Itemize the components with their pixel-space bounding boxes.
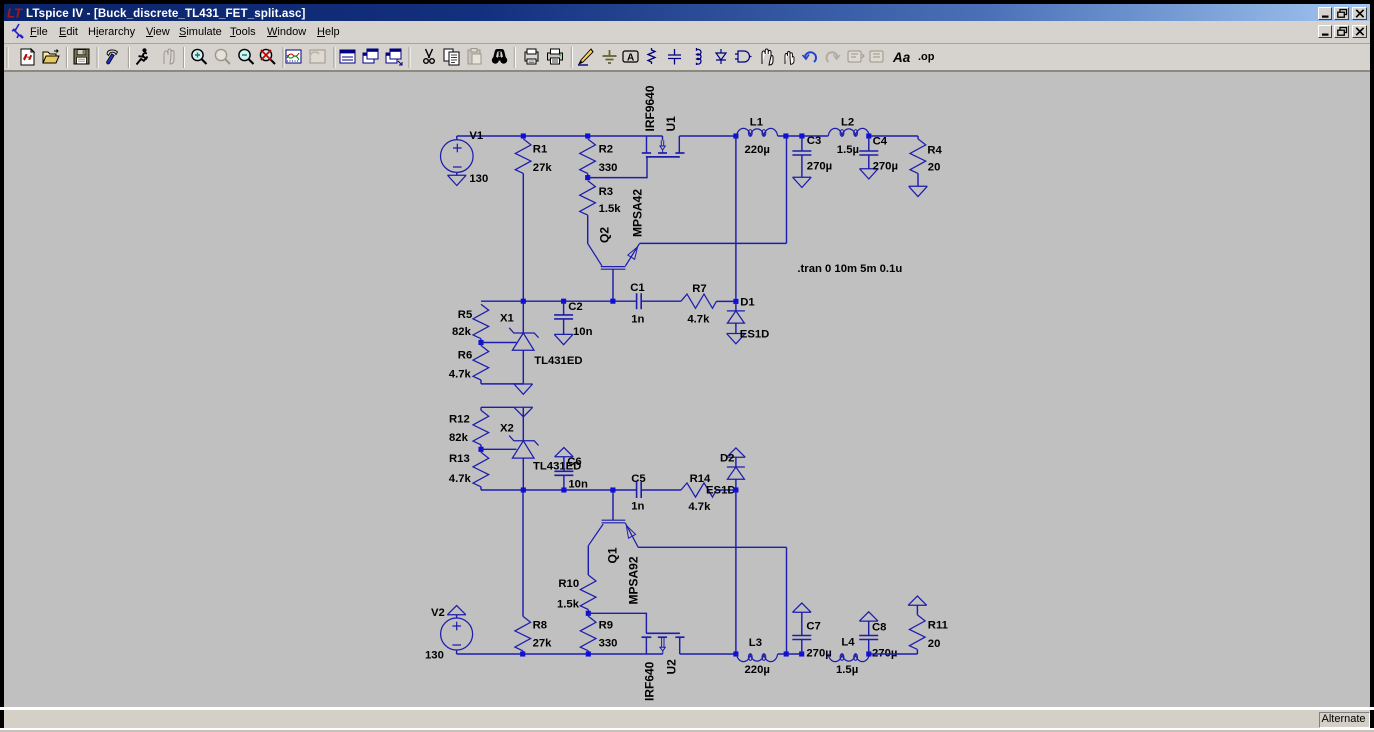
junction mid rail at Q2 base	[610, 299, 615, 304]
junction R12/R13/X2 ref	[478, 447, 483, 452]
wire to X2 ref	[481, 448, 517, 450]
wire mid rail left	[481, 300, 637, 302]
svg-text:L4: L4	[841, 636, 855, 648]
svg-text:27k: 27k	[533, 638, 553, 650]
wire bottom rail right	[680, 653, 736, 655]
svg-text:C4: C4	[873, 135, 888, 147]
capacitor C3	[801, 136, 803, 151]
capacitor C7	[801, 612, 803, 635]
U1 body bar	[658, 152, 667, 154]
svg-text:C8: C8	[872, 621, 886, 633]
npn transistor Q2	[601, 266, 626, 268]
svg-text:20: 20	[928, 162, 941, 174]
svg-text:4.7k: 4.7k	[688, 501, 711, 513]
svg-text:1.5µ: 1.5µ	[837, 144, 859, 156]
wire C8 to R11	[869, 653, 918, 655]
svg-text:TL431ED: TL431ED	[534, 355, 582, 367]
status bar	[0, 707, 1374, 710]
shunt regulator X2 TL431ED	[522, 407, 524, 441]
junction top rail at Q2 emitter branch	[783, 133, 788, 138]
wire L2 to R4 segment	[867, 135, 918, 137]
title bar	[4, 4, 1370, 21]
shunt regulator X1 TL431ED	[522, 301, 524, 333]
svg-text:V1: V1	[469, 130, 483, 142]
svg-text:Q2: Q2	[598, 227, 612, 243]
resistor R1	[515, 139, 531, 174]
wire C1 to R7	[641, 300, 681, 302]
svg-text:130: 130	[425, 650, 444, 662]
svg-text:V2: V2	[431, 607, 445, 619]
wire Q1 collector to R10	[587, 546, 589, 575]
svg-text:R3: R3	[599, 186, 613, 198]
resistor R3	[580, 181, 596, 216]
wire Q1 emitter to bottom switch node	[638, 546, 786, 548]
wire R14 to D2 node	[717, 489, 736, 491]
ground under V1	[448, 174, 467, 176]
junction gate node	[585, 175, 590, 180]
svg-text:82k: 82k	[452, 326, 472, 338]
svg-text:1.5k: 1.5k	[599, 203, 622, 215]
svg-text:IRF9640: IRF9640	[643, 85, 657, 131]
pnp transistor Q1	[602, 519, 626, 521]
svg-text:X1: X1	[500, 313, 514, 325]
svg-text:L2: L2	[841, 116, 854, 128]
junction bottom rail at C7	[799, 651, 804, 656]
voltage source V1	[456, 136, 458, 140]
svg-text:R9: R9	[599, 620, 613, 632]
U2 source stub	[645, 637, 647, 654]
svg-text:C6: C6	[567, 456, 581, 468]
wire top rail left (V1 to U1 source)	[457, 135, 663, 137]
junction D1 node	[733, 299, 738, 304]
inductor L4	[828, 654, 869, 662]
svg-text:R4: R4	[927, 144, 942, 156]
resistor R8	[515, 616, 531, 651]
wire to X1 ref	[481, 342, 517, 344]
power flag above C8	[859, 620, 878, 622]
svg-text:R2: R2	[599, 144, 613, 156]
junction R10/R9/U2 gate	[586, 611, 591, 616]
junction bottom rail at C8	[866, 651, 871, 656]
junction bottom mid rail at X2	[521, 487, 526, 492]
wire L1 to L2 segment	[778, 135, 829, 137]
ground under R4	[909, 185, 928, 187]
svg-text:C1: C1	[630, 282, 644, 294]
U1 body stub with arrow	[662, 136, 664, 140]
svg-text:10n: 10n	[573, 326, 593, 338]
svg-text:MPSA92: MPSA92	[627, 556, 641, 604]
capacitor C4	[868, 136, 870, 151]
menu bar	[4, 21, 1370, 44]
resistor R11	[916, 605, 918, 615]
svg-text:10n: 10n	[568, 479, 588, 491]
resistor R12	[480, 407, 482, 410]
toolbar	[4, 44, 1370, 70]
svg-text:R6: R6	[458, 349, 472, 361]
U1 drain stub	[678, 136, 680, 153]
junction top rail at C4	[866, 133, 871, 138]
power flag above V2	[447, 614, 466, 616]
capacitor C8	[868, 621, 870, 635]
resistor R14	[681, 483, 717, 497]
diode D1	[735, 301, 737, 311]
wire R1 bottom to mid rail	[522, 173, 524, 301]
U1 drain bar	[675, 152, 684, 154]
svg-text:220µ: 220µ	[745, 144, 770, 156]
junction R5/R6/X1 ref	[478, 340, 483, 345]
ground under X1	[514, 383, 533, 385]
junction bottom mid rail at C6	[561, 487, 566, 492]
wire R6 bottom to X1 anode	[481, 383, 523, 385]
ground symbol at R12 top	[514, 406, 533, 408]
wire Q2 emitter branch vertical	[786, 136, 788, 243]
power flag above D2	[727, 456, 746, 458]
svg-text:R12: R12	[449, 413, 470, 425]
wire bottom mid rail	[481, 489, 637, 491]
svg-text:270µ: 270µ	[873, 160, 898, 172]
svg-text:.tran 0 10m 5m 0.1u: .tran 0 10m 5m 0.1u	[797, 263, 902, 275]
U2 body bar	[658, 636, 667, 638]
wire top rail right (U1 drain to L1)	[679, 135, 736, 137]
wire C5 to R14	[641, 489, 681, 491]
svg-text:27k: 27k	[533, 162, 553, 174]
ground under C3	[793, 176, 812, 178]
svg-text:ES1D: ES1D	[706, 484, 736, 496]
resistor R10	[580, 575, 596, 610]
svg-text:330: 330	[599, 162, 618, 174]
resistor R13	[480, 449, 482, 452]
wire U2 gate feed	[588, 613, 646, 633]
svg-text:R10: R10	[558, 578, 579, 590]
U1 channel bar	[646, 156, 680, 158]
svg-text:270µ: 270µ	[806, 648, 831, 660]
capacitor C6	[563, 457, 565, 472]
svg-text:C2: C2	[568, 301, 582, 313]
U2 body stub with arrow	[661, 637, 663, 647]
inductor L2	[828, 128, 869, 136]
resistor R2	[580, 139, 596, 174]
junction top rail at L1 left / D1 branch	[733, 133, 738, 138]
junction bottom rail at L3 right	[784, 651, 789, 656]
wire L3 to C7	[778, 653, 802, 655]
LTspice app icon	[6, 5, 24, 20]
svg-text:C5: C5	[631, 473, 645, 485]
resistor R4	[917, 136, 919, 139]
capacitor C2	[563, 301, 565, 315]
ground under C4	[860, 168, 879, 170]
svg-text:82k: 82k	[449, 432, 469, 444]
svg-text:R13: R13	[449, 453, 470, 465]
svg-text:4.7k: 4.7k	[449, 473, 472, 485]
wire D2 branch vertical to bottom rail	[735, 490, 737, 654]
svg-text:IRF640: IRF640	[643, 661, 657, 701]
junction top rail at R2	[585, 133, 590, 138]
svg-text:R1: R1	[533, 144, 547, 156]
wire gate node to U1 gate	[588, 157, 647, 178]
junction D2 node	[733, 487, 738, 492]
svg-text:ES1D: ES1D	[740, 329, 770, 341]
wire R7 to D1 node	[717, 300, 736, 302]
svg-text:1n: 1n	[631, 314, 644, 326]
junction bottom mid rail at Q1 base	[610, 487, 615, 492]
resistor R6	[480, 343, 482, 346]
svg-text:C7: C7	[806, 621, 820, 633]
junction bottom rail at R8	[520, 651, 525, 656]
p-mosfet U1 source stub	[646, 136, 648, 153]
svg-text:4.7k: 4.7k	[687, 314, 710, 326]
power flag above R12 (inverted ground)	[481, 406, 514, 408]
wire D1 branch vertical	[735, 136, 737, 301]
power flag above C7	[793, 611, 812, 613]
junction mid rail at X1/R1	[521, 299, 526, 304]
svg-text:330: 330	[599, 638, 618, 650]
wire bottom rail left	[457, 653, 663, 655]
junction mid rail at C2	[561, 299, 566, 304]
svg-text:1n: 1n	[631, 500, 644, 512]
svg-text:L3: L3	[749, 637, 762, 649]
svg-text:MPSA42: MPSA42	[631, 189, 645, 237]
svg-text:D1: D1	[740, 296, 754, 308]
svg-text:R5: R5	[458, 309, 472, 321]
svg-text:R14: R14	[690, 473, 711, 485]
svg-text:270µ: 270µ	[807, 160, 832, 172]
resistor R9	[587, 613, 589, 616]
wire R3 bottom to Q2 collector	[587, 215, 589, 243]
wire R8 top to X2 node	[522, 490, 524, 616]
svg-text:R7: R7	[692, 283, 706, 295]
capacitor C1	[636, 293, 638, 309]
ground under C2	[554, 333, 573, 335]
svg-text:X2: X2	[500, 422, 514, 434]
inductor L1	[737, 128, 778, 136]
svg-text:R8: R8	[533, 620, 547, 632]
svg-text:130: 130	[469, 173, 488, 185]
junction bottom rail at L3 left	[733, 651, 738, 656]
capacitor C5	[636, 482, 638, 498]
U2 drain stub	[679, 637, 681, 654]
resistor R7	[681, 294, 717, 308]
junction top rail at C3	[799, 133, 804, 138]
resistor R5	[473, 304, 489, 339]
power flag above R11	[908, 604, 927, 606]
junction top rail at R1	[521, 133, 526, 138]
svg-text:Q1: Q1	[606, 547, 620, 563]
svg-text:C3: C3	[807, 135, 821, 147]
svg-text:D2: D2	[720, 452, 734, 464]
svg-text:1.5µ: 1.5µ	[836, 664, 858, 676]
voltage source V2	[456, 615, 458, 618]
svg-text:220µ: 220µ	[745, 664, 770, 676]
diode D2	[735, 457, 737, 467]
svg-text:4.7k: 4.7k	[449, 368, 472, 380]
U1 source bar	[642, 152, 651, 154]
U2 source bar	[642, 636, 652, 638]
wire Q2 emitter to switch node	[640, 242, 787, 244]
junction bottom rail at R9	[586, 651, 591, 656]
wire R2 bottom to gate node	[587, 173, 589, 177]
power flag above C6	[555, 456, 574, 458]
inductor L3	[737, 654, 778, 662]
svg-text:L1: L1	[750, 116, 763, 128]
svg-text:20: 20	[928, 638, 941, 650]
svg-text:U1: U1	[664, 116, 678, 132]
svg-text:R11: R11	[928, 619, 948, 631]
ground under D1	[727, 333, 746, 335]
svg-text:U2: U2	[665, 659, 679, 675]
U2 drain bar	[675, 636, 684, 638]
svg-text:1.5k: 1.5k	[557, 599, 580, 611]
n-mosfet U2 channel bar	[646, 632, 680, 634]
